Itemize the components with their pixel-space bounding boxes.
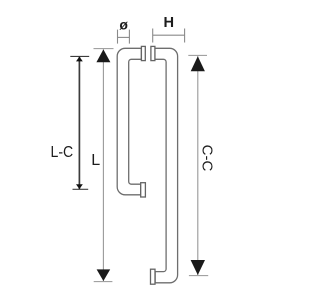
- C-C bottom arrow: [191, 260, 205, 275]
- svg-text:L: L: [91, 152, 100, 169]
- dimension L-C vertical line: [78, 57, 80, 190]
- dimension L-C top extension line: [70, 55, 89, 57]
- dimension L vertical line: [102, 49, 104, 281]
- svg-text:L-C: L-C: [51, 143, 74, 161]
- right handle (long pull) outline: [155, 48, 178, 282]
- L-C bottom arrow: [76, 184, 83, 189]
- left handle top cap: [141, 46, 145, 60]
- C-C top arrow: [191, 56, 205, 71]
- L bottom arrow: [97, 269, 111, 281]
- svg-text:ø: ø: [119, 17, 128, 33]
- dimension L top extension line: [94, 48, 114, 50]
- dimension L-C bottom extension line: [73, 188, 89, 190]
- dimension L bottom extension line: [94, 281, 113, 283]
- dimension line H: [153, 34, 185, 36]
- diameter right tick: [128, 30, 130, 44]
- H left tick: [152, 29, 154, 43]
- dimension C-C top extension line: [188, 54, 207, 56]
- right handle bottom cap: [151, 269, 156, 284]
- L-C top arrow: [76, 57, 83, 62]
- left handle (short pull) outline: [117, 48, 141, 195]
- left handle bottom cap: [141, 183, 146, 197]
- dimension line diameter (o-slash): [118, 36, 130, 38]
- dimension C-C bottom extension line: [189, 275, 208, 277]
- H right tick: [184, 29, 186, 43]
- L top arrow: [96, 49, 110, 62]
- svg-text:H: H: [164, 15, 175, 31]
- diameter left tick: [117, 30, 119, 44]
- svg-text:C-C: C-C: [198, 145, 215, 172]
- right handle top cap: [151, 46, 155, 60]
- dimension C-C vertical line: [197, 56, 199, 275]
